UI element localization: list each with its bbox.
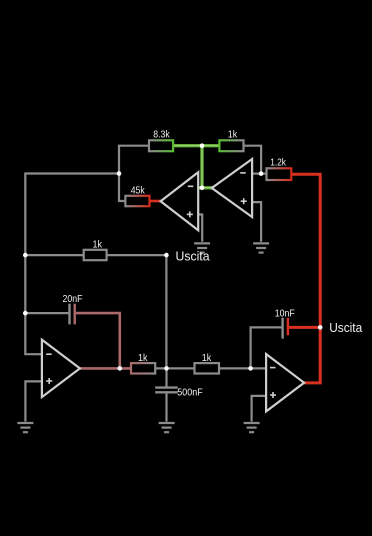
wire: op-amp U2 plus input to ground <box>252 202 261 242</box>
wire: green net 8.3k to 1k <box>173 144 219 147</box>
wire: op-amp U3 plus input to ground stem <box>25 381 42 421</box>
wire: bottom right 1k to op-amp U4 minus node <box>219 367 266 369</box>
node A junction top-left column <box>117 171 122 176</box>
svg-text:1k: 1k <box>138 352 148 364</box>
node F left rail at 20nF row <box>23 311 28 316</box>
wire: Uscita node down to 500nF junction <box>165 255 167 368</box>
node K Uscita right <box>318 321 362 335</box>
wire: 8.3k left lead to top-left corner <box>119 146 149 201</box>
wire: rose 20nF right plate to feedback corner <box>76 313 120 368</box>
node B green tee top <box>200 143 205 148</box>
node I 500nF junction <box>164 366 169 371</box>
wire: left rail to 20nF left plate <box>25 312 68 314</box>
ground under U4 plus <box>244 423 260 432</box>
wire: bottom row 1k to 1k through 500nF junction <box>155 367 194 369</box>
node G Uscita left <box>164 250 209 264</box>
wire: U4 minus node up to 10nF left plate <box>251 327 282 368</box>
svg-text:Uscita: Uscita <box>176 250 210 264</box>
wire: 1k middle to Uscita node <box>107 254 167 256</box>
svg-text:1.2k: 1.2k <box>270 157 286 169</box>
ground under 500nF <box>159 423 175 432</box>
capacitor C1 20nF <box>63 293 83 324</box>
svg-text:1k: 1k <box>202 352 212 364</box>
wire: red 45k to op-amp U1 output <box>150 200 162 203</box>
resistor R6 1k (bottom right) <box>195 352 220 373</box>
wire: left rail to 1k middle resistor <box>25 254 83 256</box>
wire: op-amp U4 plus input to ground stem <box>252 396 267 422</box>
capacitor C2 10nF <box>275 307 295 338</box>
svg-text:1k: 1k <box>92 238 102 250</box>
wire: green net vertical drop <box>200 146 203 188</box>
ground under U3 plus <box>17 423 33 432</box>
wire: green net U1 minus to U2 output <box>197 186 213 189</box>
wire: 500nF bottom plate to ground <box>165 393 167 422</box>
resistor R5 1k (bottom left) <box>131 352 155 373</box>
resistor R7 1k (middle) <box>84 238 107 260</box>
wire: 1k top right lead down to node <box>244 146 262 174</box>
wire: op-amp U2 minus stub to node and 1.2k <box>252 173 266 175</box>
ground under U2 <box>253 243 269 252</box>
wire: rose op-amp U3 output to 1k <box>80 367 131 370</box>
resistor R1 8.3k <box>149 129 173 152</box>
node E left rail at 1k row <box>23 253 28 258</box>
wire: branch from left corner column to left rail <box>25 174 119 355</box>
op-amp U2 (points left) <box>212 159 252 217</box>
svg-text:8.3k: 8.3k <box>153 129 170 141</box>
svg-text:1k: 1k <box>228 129 238 141</box>
node J U4 minus junction <box>248 366 253 371</box>
svg-text:10nF: 10nF <box>275 307 295 319</box>
resistor R4 1.2k <box>267 157 292 180</box>
wire: 500nF junction to top plate <box>165 368 167 386</box>
ground under U1 <box>194 243 210 252</box>
wire: red 10nF right plate to Uscita node <box>289 326 321 329</box>
node D U2 minus / 1.2k <box>259 171 264 176</box>
op-amp U4 (points right) <box>266 354 304 411</box>
capacitor C3 500nF <box>155 386 203 398</box>
svg-text:Uscita: Uscita <box>329 321 362 335</box>
svg-text:20nF: 20nF <box>63 293 83 305</box>
wire: red 1.2k to right rail down to U4 output <box>291 174 320 383</box>
op-amp U1 (points left) <box>161 172 199 230</box>
resistor R2 1k (top) <box>219 129 243 152</box>
op-amp U3 (points right) <box>42 340 80 397</box>
node H U3 output junction <box>118 366 123 371</box>
resistor R3 45k <box>125 184 149 206</box>
wire: op-amp U1 plus input to ground <box>198 215 202 242</box>
node C green tee at U1 minus <box>200 186 205 191</box>
svg-text:500nF: 500nF <box>177 386 203 398</box>
svg-text:45k: 45k <box>131 184 146 196</box>
